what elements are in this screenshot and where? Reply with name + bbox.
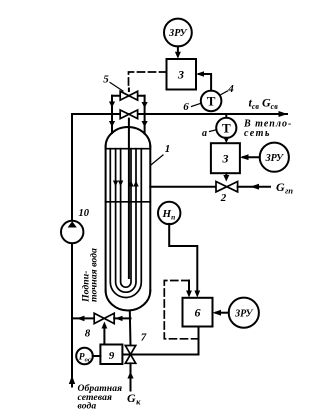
svg-text:9: 9 (109, 350, 115, 362)
svg-text:tсвGсв: tсвGсв (249, 96, 279, 112)
wire: box 9 to valve 8 stem with up arrow (103, 325, 105, 345)
controller box 9 (100, 345, 122, 365)
U-tube bundle: inner U (121, 149, 131, 288)
vessel 1: top dome (106, 127, 151, 147)
pump 10 flow triangle (68, 221, 77, 227)
tube sheet line (106, 148, 151, 150)
valve 5 stem (128, 89, 130, 92)
svg-text:1: 1 (165, 143, 171, 155)
vessel 1: right wall (149, 147, 151, 291)
ZRU circle bottom (229, 298, 259, 328)
flow arrow on left loop lower (109, 121, 115, 127)
ZRU circle top (164, 19, 192, 47)
wire: Hp to box 6 (169, 224, 197, 293)
wire: supply arrowhead right end (279, 111, 288, 117)
svg-text:7: 7 (141, 332, 147, 344)
wire: sensor T(a) to box 3b with arrow (225, 138, 227, 140)
level sensor Hp circle (158, 202, 180, 224)
pointer line label 1 (150, 155, 163, 166)
wire: return riser bottom up-arrow (69, 376, 75, 385)
svg-text:Т: Т (207, 94, 216, 109)
wire: makeup line left of valve 8 with left arrow (72, 317, 94, 319)
valve 5 (upper bowtie) (120, 91, 137, 100)
svg-text:6: 6 (195, 306, 201, 320)
wire: upper valve line (112, 95, 145, 97)
vessel 1: left wall (105, 147, 107, 291)
vessel 1: bottom cap (106, 291, 151, 311)
U-tube bundle: middle U (116, 149, 136, 293)
svg-text:3: 3 (222, 152, 229, 166)
wire: sensor T to box 3a (199, 74, 211, 91)
svg-text:ЗРУ: ЗРУ (265, 153, 284, 164)
wire: P_oc to box 9 (93, 355, 101, 357)
flow arrow G_gp pointing left (250, 184, 259, 190)
wire: vessel outlet to valve 2 (150, 186, 216, 188)
wire: valve 8 to drain junction (114, 317, 130, 319)
svg-text:4: 4 (227, 83, 234, 95)
svg-text:Gк: Gк (127, 391, 141, 407)
svg-text:сеть: сеть (244, 128, 271, 139)
valve 2 bowtie (216, 182, 238, 192)
flow arrow on right loop upper (142, 102, 148, 108)
wire: ZRU to box 3b with arrow (243, 156, 260, 158)
label podpitochnaya voda (rotated) (81, 248, 100, 303)
pointer line label 6 (192, 103, 201, 106)
flow arrow right of valve 8 pointing left (115, 316, 123, 321)
valve 8 bowtie (94, 313, 114, 323)
svg-text:а: а (202, 128, 207, 139)
wire: drain from vessel bottom to valve 7 (129, 311, 132, 346)
wire: short arrow into box 6 from dashed boundary (188, 281, 190, 293)
tube flow arrow down on x=120.6 (118, 181, 123, 187)
tube flow arrow up on x=136 (133, 181, 138, 187)
pointer line label 5 (110, 83, 123, 92)
flow arrow on left loop upper (109, 102, 115, 108)
wire: box 3b to valve 2 stem with arrow (225, 173, 227, 178)
controller box 6 (183, 298, 213, 327)
wire: valve 7 to box 6 bottom (123, 327, 199, 355)
label obratnaya setevaya voda (78, 383, 123, 412)
wire: ZRU to box 3a with arrow (177, 46, 179, 53)
ZRU circle right of box 3b (260, 143, 289, 172)
valve 5 bypass loop: left vertical (111, 96, 113, 133)
sensor T (a) below supply line (225, 114, 227, 118)
svg-text:Т: Т (222, 121, 231, 136)
pointer line label a (210, 130, 217, 132)
valve 5' (lower bowtie on main line) (120, 110, 137, 119)
svg-text:ЗРУ: ЗРУ (234, 309, 253, 320)
tube flow arrow up on x=131 (128, 181, 133, 187)
valve 7 vertical bowtie (125, 346, 135, 364)
wire: G_k line below valve 7 with up arrow (130, 363, 132, 390)
wire: center inlet pipe from lower valve through dome to bundle (128, 119, 130, 278)
flow arrow on right loop lower (142, 121, 148, 127)
valve 5 bypass loop: right vertical (144, 96, 146, 134)
tube flow arrow down on x=115.6 (113, 181, 118, 187)
dashed boundary around box 6 (164, 281, 198, 339)
wire: G_gp inlet line (238, 186, 270, 188)
svg-text:10: 10 (79, 208, 90, 219)
svg-text:Gгп: Gгп (276, 180, 293, 196)
sensor T (4,6) on supply line (201, 91, 222, 112)
controller box 3a (167, 59, 197, 90)
svg-text:точная вода: точная вода (89, 248, 100, 302)
water level line (106, 201, 151, 203)
svg-text:ЗРУ: ЗРУ (168, 28, 187, 39)
pump 10 (61, 221, 83, 243)
controller box 3b (211, 143, 240, 173)
svg-text:8: 8 (85, 328, 91, 340)
dashed control line: box 3a to valve 5 (129, 72, 167, 89)
pointer line label 4 (220, 91, 228, 95)
svg-text:вода: вода (78, 401, 97, 412)
wire: ZRU to box 6 with arrow (216, 312, 229, 314)
svg-text:5: 5 (103, 74, 109, 86)
U-tube bundle: outer U (110, 149, 141, 298)
sensor P_oc circle (76, 348, 93, 365)
svg-text:2: 2 (220, 192, 227, 204)
svg-text:6: 6 (183, 101, 189, 113)
svg-text:3: 3 (177, 68, 184, 82)
wire: return riser left vertical with corner to main supply line (72, 114, 287, 387)
